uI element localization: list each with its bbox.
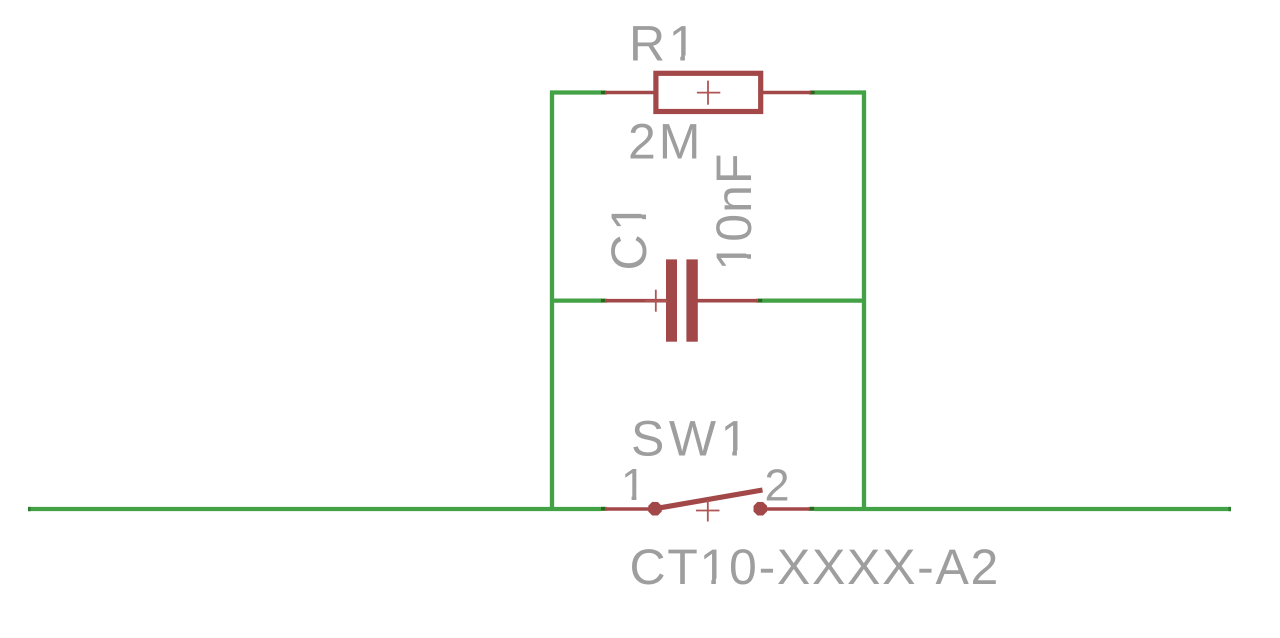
svg-text:1: 1: [621, 459, 646, 510]
svg-text:R1: R1: [629, 16, 700, 72]
svg-text:C1: C1: [601, 200, 657, 271]
svg-text:SW1: SW1: [631, 411, 753, 467]
svg-text:2: 2: [765, 460, 790, 511]
svg-text:2M: 2M: [628, 113, 703, 169]
svg-text:CT10-XXXX-A2: CT10-XXXX-A2: [630, 539, 1001, 595]
svg-text:10nF: 10nF: [706, 153, 762, 271]
